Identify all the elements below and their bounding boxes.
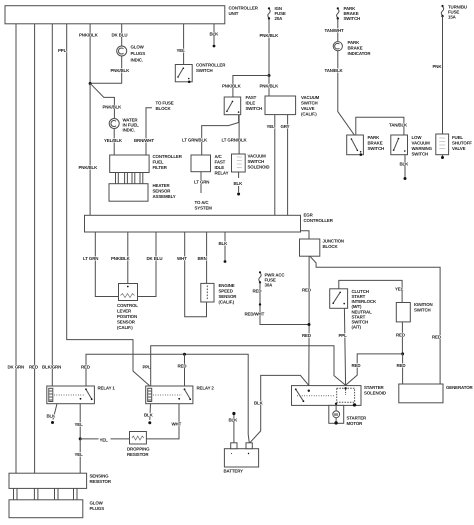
wire BLK battery negative to ground: [229, 412, 239, 443]
svg-text:TO A/C: TO A/C: [195, 200, 210, 205]
svg-text:(A/T): (A/T): [352, 325, 362, 330]
svg-text:PNK/BLK: PNK/BLK: [79, 165, 99, 170]
wire BLK relay 2 to ground: [144, 404, 154, 425]
svg-text:VACUUM: VACUUM: [412, 141, 431, 146]
svg-text:(CALIF.): (CALIF.): [301, 112, 317, 117]
svg-text:RELAY: RELAY: [215, 171, 229, 176]
svg-text:RED: RED: [432, 335, 441, 340]
wire RED node J4 to generator: [397, 354, 406, 384]
svg-text:15A: 15A: [448, 15, 457, 20]
svg-text:YEL: YEL: [395, 287, 404, 292]
svg-text:BLK/GRN: BLK/GRN: [42, 365, 61, 370]
svg-text:RED: RED: [302, 288, 311, 293]
svg-text:CONTROLLER: CONTROLLER: [304, 218, 334, 223]
svg-text:DROPPING: DROPPING: [127, 447, 150, 452]
wire PPL from controller to relay 2: [58, 24, 151, 386]
svg-text:TO FUSE: TO FUSE: [156, 101, 174, 106]
svg-text:LOW: LOW: [412, 135, 423, 140]
svg-text:DK BLU: DK BLU: [147, 256, 163, 261]
wire BLK low vacuum switch to ground: [400, 155, 410, 177]
wire YEL node J6 to dropping resistor: [80, 436, 129, 443]
node J2 junction dot: [268, 74, 271, 77]
svg-text:PNK/BLK: PNK/BLK: [260, 84, 280, 89]
switch park brake switch S3: [347, 135, 384, 156]
svg-text:RELAY 2: RELAY 2: [197, 386, 215, 391]
svg-text:RED: RED: [397, 363, 406, 368]
wire DK GRN from controller to sensing resistor: [8, 24, 25, 473]
wire BLK stub from controller: [210, 24, 220, 48]
svg-text:FAST: FAST: [246, 95, 257, 100]
svg-text:BRN/WHT: BRN/WHT: [134, 138, 154, 143]
junction block: [300, 239, 344, 257]
switch low vacuum warning switch S4: [391, 135, 433, 157]
svg-text:DK BLU: DK BLU: [112, 33, 128, 38]
svg-text:PARK: PARK: [348, 40, 361, 45]
svg-text:PNK: PNK: [433, 64, 443, 69]
svg-text:ENGINE: ENGINE: [219, 283, 235, 288]
wire DK BLU from EGR to control lever position sensor: [138, 232, 163, 297]
svg-text:30A: 30A: [265, 283, 274, 288]
wire RED rail battery to relays: [86, 354, 249, 443]
node J3 junction dot: [308, 323, 311, 326]
wire PNK/BLK from node J2 to vacuum switch valve: [260, 76, 280, 97]
switch fast idle switch S2: [224, 95, 262, 115]
relay 1 K1: [47, 386, 116, 404]
svg-text:PNK/BLK: PNK/BLK: [111, 68, 131, 73]
sensor control lever position sensor (calif): [117, 284, 138, 331]
svg-text:RED: RED: [253, 289, 262, 294]
svg-text:IGNITION: IGNITION: [414, 302, 433, 307]
relay A/C fast idle relay K3: [191, 154, 229, 176]
wire DK BLU from controller to glow plugs indicator: [112, 24, 128, 46]
svg-text:RED: RED: [81, 365, 90, 370]
wire RED node J4 to starter solenoid S terminal: [346, 354, 403, 385]
svg-text:YEL: YEL: [75, 422, 84, 427]
svg-text:SENSING: SENSING: [90, 474, 110, 479]
wire LT GRN from A/C relay to A/C system: [194, 172, 212, 211]
svg-text:RED: RED: [352, 363, 361, 368]
wire BLK relay 1 to ground: [47, 404, 58, 424]
svg-text:M: M: [334, 412, 338, 417]
wire PNK/BLK node J1 to EGR controller: [79, 84, 99, 216]
wire RED ignition switch to node J4: [396, 322, 405, 354]
wire RED node J5 to relay 2: [178, 354, 187, 386]
svg-text:PNK/BLK: PNK/BLK: [111, 256, 131, 261]
svg-text:LT GRN/BLK: LT GRN/BLK: [222, 138, 248, 143]
svg-text:GLOW: GLOW: [90, 501, 104, 506]
lamp water in fuel indicator: [109, 118, 139, 133]
svg-text:WHT: WHT: [172, 422, 182, 427]
svg-text:20A: 20A: [275, 16, 284, 21]
switch clutch start interlock / neutral start switch S5: [330, 289, 377, 330]
starter motor M1: [329, 405, 367, 426]
node J6 junction dot: [79, 437, 82, 440]
resistor sensing resistor R2: [9, 473, 112, 488]
svg-text:(M/T): (M/T): [352, 304, 363, 309]
svg-text:STARTER: STARTER: [347, 416, 368, 421]
svg-text:DK GRN: DK GRN: [8, 365, 25, 370]
wire PNK/BLK from EGR to control lever position sensor: [111, 232, 131, 284]
wire PNK/BLK from ign fuse to node J2: [260, 19, 280, 76]
svg-text:SOLENOID: SOLENOID: [248, 165, 270, 170]
svg-text:TAN/BLK: TAN/BLK: [389, 123, 408, 128]
wire YEL node J6 to sensing resistor: [75, 439, 84, 473]
ground dot under fuel shutoff valve: [441, 155, 444, 159]
svg-text:INDIC.: INDIC.: [131, 58, 143, 63]
svg-text:INDIC.: INDIC.: [123, 128, 135, 133]
wire YEL/BLK water indicator to controller fuel filter: [104, 129, 123, 155]
svg-text:BRAKE: BRAKE: [368, 141, 383, 146]
svg-text:PPL: PPL: [339, 333, 348, 338]
svg-text:VACUUM: VACUUM: [301, 95, 320, 100]
switch controller switch S1: [175, 63, 226, 84]
svg-text:MOTOR: MOTOR: [347, 421, 364, 426]
wire RED / RED/WHT from pwr acc fuse to node J3: [245, 282, 309, 324]
wire BLK battery positive to starter solenoid B terminal: [250, 375, 309, 442]
svg-text:SOLENOID: SOLENOID: [364, 391, 386, 396]
wire EGR controller to junction block: [301, 231, 310, 239]
lamp glow plugs indicator: [117, 45, 146, 63]
svg-text:SPEED: SPEED: [219, 289, 233, 294]
svg-text:INDICATOR: INDICATOR: [348, 51, 372, 56]
wire PNK/BLK from glow indicator to node J1: [90, 56, 130, 83]
svg-text:SHUTOFF: SHUTOFF: [452, 141, 472, 146]
svg-text:SWITCH: SWITCH: [368, 146, 385, 151]
svg-text:LT GRN: LT GRN: [83, 256, 98, 261]
ground dot under low vacuum switch: [404, 177, 407, 180]
svg-text:PARK: PARK: [368, 135, 381, 140]
svg-text:EGR: EGR: [304, 213, 314, 218]
svg-text:RED: RED: [302, 333, 311, 338]
svg-text:FILTER: FILTER: [153, 165, 168, 170]
svg-text:(CALIF.): (CALIF.): [117, 325, 133, 330]
wire PNK/BLK from controller to node J1: [79, 24, 99, 84]
resistor dropping resistor R1: [127, 432, 150, 458]
wire TAN/BLK park brake indicator to park brake switch: [325, 51, 355, 135]
svg-text:RED: RED: [178, 364, 187, 369]
svg-text:WHT: WHT: [177, 256, 187, 261]
svg-text:A/C: A/C: [215, 154, 223, 159]
sensor engine speed sensor (calif): [201, 283, 237, 305]
svg-text:BLK: BLK: [47, 414, 57, 419]
svg-text:CONTROLLER: CONTROLLER: [229, 6, 259, 11]
ground dot under vacuum switch solenoid: [237, 193, 240, 196]
svg-text:SYSTEM: SYSTEM: [195, 206, 213, 211]
svg-text:YEL: YEL: [100, 438, 109, 443]
svg-text:GENERATOR: GENERATOR: [446, 385, 474, 390]
svg-text:SENSOR: SENSOR: [219, 294, 238, 299]
lamp park brake indicator: [333, 40, 371, 56]
svg-text:TAN/WHT: TAN/WHT: [325, 28, 345, 33]
svg-text:BATTERY: BATTERY: [224, 469, 244, 474]
connector pins filter to heater sensor: [116, 173, 143, 184]
svg-text:RESISTOR: RESISTOR: [90, 479, 112, 484]
wire BLK vacuum switch solenoid to ground: [234, 172, 244, 192]
svg-text:FUEL: FUEL: [452, 135, 463, 140]
svg-text:STARTER: STARTER: [364, 385, 385, 390]
wire YEL from controller to controller switch: [177, 24, 186, 65]
svg-text:FUEL: FUEL: [153, 160, 164, 165]
svg-text:RED/WHT: RED/WHT: [245, 312, 265, 317]
svg-text:YEL: YEL: [177, 48, 186, 53]
svg-text:RED: RED: [29, 365, 38, 370]
svg-text:CONTROL: CONTROL: [117, 303, 138, 308]
svg-text:SWITCH: SWITCH: [248, 159, 265, 164]
svg-text:BLK: BLK: [234, 181, 244, 186]
fuse TURN/BU FUSE 15A: [441, 5, 467, 20]
svg-text:ASSEMBLY: ASSEMBLY: [153, 194, 176, 199]
ignition switch S6: [396, 302, 432, 322]
switch park brake switch symbol top: [337, 6, 361, 21]
wire TAN/BLK park brake switch to low vacuum warning switch: [356, 117, 408, 135]
svg-text:RESISTOR: RESISTOR: [127, 452, 149, 457]
svg-text:BLK: BLK: [219, 241, 229, 246]
wire BLK/GRN from controller to relay 1: [42, 24, 61, 386]
fuse PWR ACC FUSE 30A: [259, 271, 286, 287]
svg-text:VACUUM: VACUUM: [248, 154, 267, 159]
svg-text:BLOCK: BLOCK: [156, 106, 172, 111]
svg-text:YEL: YEL: [75, 452, 84, 457]
svg-text:WARNING: WARNING: [412, 146, 433, 151]
svg-text:SWITCH: SWITCH: [246, 106, 263, 111]
wire PPL clutch switch to starter solenoid: [339, 308, 348, 385]
svg-text:HEATER: HEATER: [153, 183, 171, 188]
svg-text:CONTROLLER: CONTROLLER: [153, 154, 183, 159]
svg-text:VALVE: VALVE: [452, 146, 466, 151]
svg-text:RELAY 1: RELAY 1: [98, 386, 116, 391]
wire YEL relay 1 to node J6: [75, 404, 84, 439]
svg-text:FAST: FAST: [215, 160, 226, 165]
wire BRN/WHT controller fuel filter to fuse block: [134, 101, 174, 156]
svg-text:SWITCH: SWITCH: [412, 152, 429, 157]
wire RED junction block to node J3 to starter solenoid: [302, 256, 311, 385]
svg-text:LT GRN/BLK: LT GRN/BLK: [182, 138, 208, 143]
wire BRN from EGR to engine speed sensor: [198, 232, 207, 283]
wire RED from controller to sensing resistor: [29, 24, 38, 473]
node J1 junction dot: [89, 82, 92, 85]
svg-text:PNK/BLK: PNK/BLK: [79, 33, 99, 38]
controller fuel filter: [110, 154, 183, 173]
svg-text:PNK/BLK: PNK/BLK: [222, 84, 242, 89]
svg-text:BLK: BLK: [254, 401, 264, 406]
generator G1: [399, 384, 474, 403]
wire PNK/BLK from node J2 to fast idle switch: [222, 76, 269, 98]
controller unit U1: [5, 6, 259, 24]
svg-text:CONTROLLER: CONTROLLER: [196, 63, 226, 68]
node J4 junction dot: [401, 352, 404, 355]
svg-text:LT GRN: LT GRN: [194, 180, 209, 185]
svg-text:LEVER: LEVER: [117, 309, 132, 314]
wire BLK stub from EGR to ground dot: [219, 232, 229, 263]
svg-text:UNIT: UNIT: [229, 11, 239, 16]
svg-text:SENSOR: SENSOR: [153, 189, 172, 194]
svg-text:VALVE: VALVE: [301, 106, 315, 111]
wire WHT from EGR to engine speed sensor: [177, 232, 207, 317]
svg-text:BLOCK: BLOCK: [323, 244, 339, 249]
svg-text:PNK/BLK: PNK/BLK: [260, 33, 280, 38]
svg-text:RED: RED: [396, 333, 405, 338]
wire PNK/BLK node J1 to water in fuel indicator: [90, 83, 122, 118]
wire YEL clutch switch to ignition switch: [339, 280, 404, 302]
relay 2 K2: [146, 386, 215, 404]
svg-text:TAN/BLK: TAN/BLK: [325, 68, 344, 73]
solenoid vacuum switch solenoid L1: [232, 154, 270, 173]
svg-text:IDLE: IDLE: [246, 101, 256, 106]
svg-text:PLUGS: PLUGS: [90, 506, 105, 511]
svg-text:GRY: GRY: [281, 124, 290, 129]
svg-text:SWITCH: SWITCH: [344, 16, 361, 21]
svg-text:SWITCH: SWITCH: [414, 308, 431, 313]
svg-text:JUNCTION: JUNCTION: [323, 239, 344, 244]
fuse IGN FUSE 20A: [268, 6, 286, 21]
node J5 junction dot on RED rail: [183, 353, 186, 356]
svg-text:YEL: YEL: [267, 124, 276, 129]
svg-text:YEL/BLK: YEL/BLK: [104, 138, 123, 143]
starter solenoid: [292, 385, 386, 407]
svg-text:SWITCH: SWITCH: [301, 101, 318, 106]
svg-text:IDLE: IDLE: [215, 165, 225, 170]
svg-text:PNK/BLK: PNK/BLK: [103, 105, 123, 110]
wire PNK turn fuse to fuel shutoff valve: [433, 16, 443, 134]
svg-text:SWITCH: SWITCH: [196, 68, 213, 73]
glow plugs: [9, 500, 104, 518]
svg-text:PPL: PPL: [143, 365, 152, 370]
svg-text:(CALIF.): (CALIF.): [219, 300, 235, 305]
svg-text:BLK: BLK: [210, 32, 220, 37]
solenoid fuel shutoff valve L2: [436, 134, 472, 155]
svg-text:BLK: BLK: [144, 413, 154, 418]
svg-text:BRAKE: BRAKE: [348, 46, 363, 51]
svg-text:PLUGS: PLUGS: [131, 51, 146, 56]
wire GRY from vacuum switch valve to EGR controller: [281, 115, 290, 216]
svg-text:BLK: BLK: [400, 162, 410, 167]
heater sensor assembly: [109, 183, 176, 201]
EGR controller U2: [85, 213, 334, 233]
wire YEL from vacuum switch valve to EGR controller: [267, 115, 276, 216]
wire LT GRN from EGR to control lever position sensor: [83, 232, 119, 297]
svg-text:BLK: BLK: [229, 418, 239, 423]
wire TAN/WHT to park brake indicator: [325, 19, 345, 42]
wire WHT relay 2 to dropping resistor: [146, 404, 181, 439]
wire LT GRN/BLK from fast idle switch to vacuum switch solenoid: [222, 115, 248, 154]
wire PPL rail relay 2 to starter solenoid S terminal: [151, 346, 346, 386]
battery BT1: [224, 443, 259, 474]
connector tabs sensing resistor to glow plugs: [14, 488, 78, 499]
svg-text:POSITION: POSITION: [117, 314, 137, 319]
wire RED junction block to generator: [310, 256, 441, 384]
svg-text:BRN: BRN: [198, 256, 207, 261]
wire LT GRN/BLK from fast idle switch to A/C fast idle relay: [182, 115, 239, 155]
svg-text:PPL: PPL: [58, 48, 67, 53]
solenoid vacuum switch valve (calif): [265, 95, 320, 117]
svg-text:SENSOR: SENSOR: [117, 320, 136, 325]
svg-text:GLOW: GLOW: [131, 45, 145, 50]
